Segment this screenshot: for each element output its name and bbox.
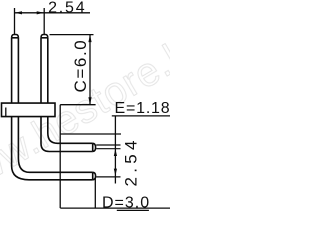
wire: D extension vertical from body right: [59, 105, 61, 208]
watermark www.hestore.hu: [0, 18, 219, 208]
svg-text:E=1.18: E=1.18: [115, 100, 171, 117]
wire: top dim extension line right: [43, 8, 45, 35]
node: C dim arrow up: [88, 35, 91, 43]
wire: E extension horizontal line: [60, 133, 121, 135]
pin P2 right vertical pin: [41, 35, 48, 104]
pin P1 left vertical pin: [12, 35, 19, 104]
node: right dim arrow down: [114, 169, 117, 176]
pin P2 bend to upper horizontal pin: [41, 117, 96, 152]
svg-text:2.54: 2.54: [48, 0, 86, 17]
wire: D dimension horizontal line: [60, 207, 170, 209]
svg-text:C=6.0: C=6.0: [71, 39, 90, 93]
wire: C dim top extension line: [50, 34, 94, 36]
wire: upper pin tip leader lines: [96, 145, 120, 149]
node: arrow left of top dim: [15, 11, 23, 14]
wire: underline under 3.0: [117, 209, 149, 211]
wire: C dimension line vertical: [89, 35, 91, 105]
wire: lower pin tip leader line: [96, 176, 120, 178]
wire: top dim extension line left: [14, 8, 16, 35]
wire: top dimension line 2.54 with leader: [15, 12, 91, 14]
wire: pin tip extension down to D line: [94, 178, 96, 209]
svg-text:2.54: 2.54: [122, 136, 141, 186]
node: right dim arrow up: [114, 149, 117, 156]
svg-text:D=3.0: D=3.0: [102, 195, 150, 212]
pin P1 bend to lower horizontal pin: [12, 117, 96, 180]
wire: C dim bottom extension line: [60, 104, 95, 106]
wire: 2.54 right dimension vertical line: [114, 116, 116, 184]
node: arrow right of top dim: [37, 11, 45, 14]
wire: E label leader underline: [112, 115, 170, 117]
body notch line bottom-left: [5, 108, 7, 117]
node: C dim arrow down: [88, 97, 91, 105]
body: plastic housing: [2, 103, 56, 117]
